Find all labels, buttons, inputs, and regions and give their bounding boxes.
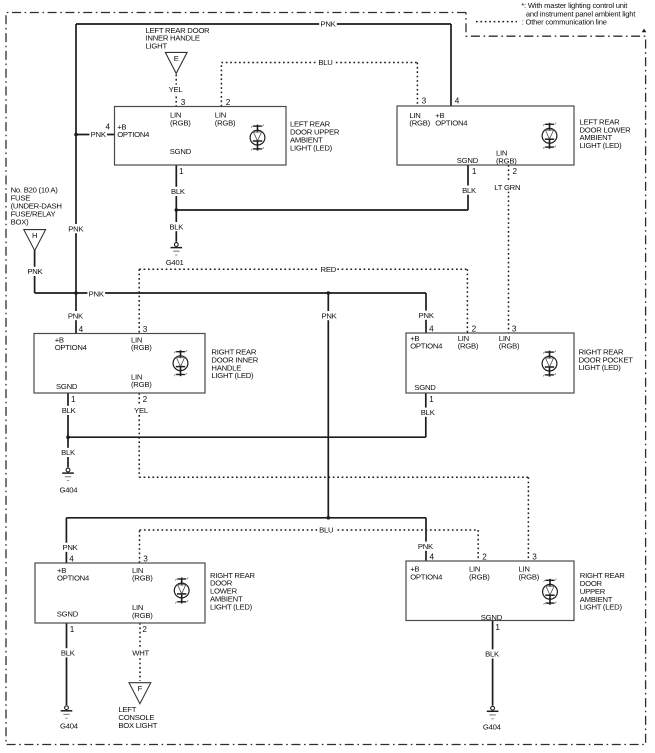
label BLU top xyxy=(317,58,335,67)
svg-text:BLK: BLK xyxy=(462,186,477,195)
svg-text:SGND: SGND xyxy=(170,147,192,156)
LED lamp U5 xyxy=(174,577,189,603)
wire dotted BLU lower box5 pin3 riser xyxy=(139,530,141,563)
wire dotted RED horizontal xyxy=(139,268,467,270)
wire box4 pin4 drop xyxy=(425,293,427,333)
label PNK box5 pin4 xyxy=(61,543,79,552)
svg-text:H: H xyxy=(32,231,37,240)
svg-text:OPTION4: OPTION4 xyxy=(435,119,468,128)
svg-text:(RGB): (RGB) xyxy=(170,118,191,127)
svg-text:(RGB): (RGB) xyxy=(519,572,540,581)
label BLK box1 pin1 xyxy=(169,187,187,196)
wire dotted WHT box5 pin2 to connector F xyxy=(139,623,141,681)
box U5 right rear door lower ambient light xyxy=(35,563,205,623)
svg-text:(RGB): (RGB) xyxy=(132,574,153,583)
wire PNK top bus from left bus to box2 pin4 xyxy=(76,23,451,25)
legend dotted sample line xyxy=(476,21,517,23)
svg-text:G404: G404 xyxy=(483,723,502,732)
svg-text:PNK: PNK xyxy=(68,311,84,320)
wire box6 pin4 drop xyxy=(425,518,427,561)
svg-text:3: 3 xyxy=(143,554,148,563)
connector E left rear door inner handle light xyxy=(165,52,187,73)
wire main PNK bus horizontal xyxy=(76,292,426,294)
svg-text:LIGHT: LIGHT xyxy=(146,41,168,50)
label WHT box5 pin2 xyxy=(132,648,150,657)
wire dotted RED box3 pin3 drop xyxy=(138,269,140,333)
svg-text:BLK: BLK xyxy=(61,448,76,457)
ground G404 under box3 xyxy=(62,468,74,480)
wire dotted BLU lower horizontal xyxy=(140,529,479,531)
wire BLK box3 pin1 down xyxy=(67,393,69,467)
svg-text:BLU: BLU xyxy=(318,58,332,67)
svg-text:4: 4 xyxy=(455,97,460,106)
svg-text:LT GRN: LT GRN xyxy=(494,183,520,192)
svg-text:2: 2 xyxy=(143,395,148,404)
wire dotted RED box4 pin2 drop xyxy=(466,269,468,333)
svg-text:4: 4 xyxy=(106,123,111,132)
LED lamp U6 xyxy=(543,579,558,605)
connector H fuse xyxy=(24,230,46,251)
ground G404 under box5 xyxy=(61,706,73,718)
svg-text:SGND: SGND xyxy=(56,382,78,391)
wire dotted BLU top horizontal xyxy=(221,62,417,64)
wire dotted LT GRN box2 pin2 to box4 pin3 xyxy=(508,165,510,333)
svg-text:1: 1 xyxy=(429,395,434,404)
label PNK fuse branch xyxy=(26,267,44,276)
wire box1 pin4 horizontal xyxy=(76,134,115,136)
svg-text:PNK: PNK xyxy=(89,289,105,298)
wire left PNK bus vertical xyxy=(75,24,77,334)
svg-text:PNK: PNK xyxy=(68,224,84,233)
svg-text:(RGB): (RGB) xyxy=(131,343,152,352)
svg-text:1: 1 xyxy=(179,167,184,176)
label PNK main bus xyxy=(87,289,105,298)
svg-text:SGND: SGND xyxy=(414,383,436,392)
svg-text:BLK: BLK xyxy=(61,649,76,658)
svg-text:3: 3 xyxy=(422,97,427,106)
svg-text:LIGHT (LED): LIGHT (LED) xyxy=(290,144,333,153)
label PNK box3 pin4 xyxy=(67,311,85,320)
label BLK box2 pin1 xyxy=(460,186,478,195)
label YEL connector E xyxy=(167,85,185,94)
wire dotted BLU top box1 pin2 riser xyxy=(220,63,222,107)
svg-text:(RGB): (RGB) xyxy=(469,572,490,581)
wire center PNK vertical xyxy=(327,293,329,518)
ground G404 under box6 xyxy=(487,706,499,718)
svg-text:(RGB): (RGB) xyxy=(132,611,153,620)
wire BLK box5 pin1 to G404 xyxy=(66,623,68,705)
svg-text:OPTION4: OPTION4 xyxy=(117,130,150,139)
label RED xyxy=(320,265,338,274)
svg-text:PNK: PNK xyxy=(320,20,336,29)
legend arrow marker xyxy=(642,29,647,33)
svg-text:4: 4 xyxy=(430,552,435,561)
wire BLK horizontal to box4 pin1 xyxy=(68,436,426,438)
svg-text:F: F xyxy=(138,684,143,693)
svg-text:1: 1 xyxy=(70,625,75,634)
node junction lower bus xyxy=(327,516,331,520)
label PNK center vertical xyxy=(320,311,338,320)
svg-text:2: 2 xyxy=(472,324,477,333)
LED lamp U4 xyxy=(542,350,557,376)
box U4 right rear door pocket light xyxy=(406,333,574,393)
svg-text:1: 1 xyxy=(495,623,500,632)
svg-text:: Other communication line: : Other communication line xyxy=(522,18,607,27)
wire dotted YEL mid horizontal xyxy=(139,476,528,478)
LED lamp U2 xyxy=(542,123,557,149)
svg-text:SGND: SGND xyxy=(481,613,503,622)
svg-text:YEL: YEL xyxy=(169,85,184,94)
label BLK box5 pin1 xyxy=(59,648,77,657)
svg-text:3: 3 xyxy=(181,98,186,107)
label BLK G401 drop xyxy=(168,222,186,231)
box U1 left rear door upper ambient light xyxy=(115,107,287,166)
box U2 left rear door lower ambient light xyxy=(397,106,574,165)
svg-text:OPTION4: OPTION4 xyxy=(57,574,90,583)
label PNK box4 pin4 xyxy=(417,311,435,320)
label BLK box6 pin1 xyxy=(483,649,501,658)
wire BLK box6 pin1 to G404 xyxy=(492,621,494,706)
svg-text:1: 1 xyxy=(71,395,76,404)
label YEL box3 pin2 xyxy=(132,406,150,415)
LED lamp U1 xyxy=(250,124,265,150)
label BLK box4 pin1 xyxy=(419,408,437,417)
label PNK box1 pin4 xyxy=(89,130,107,139)
wire dotted BLU lower box6 pin2 drop xyxy=(477,530,479,561)
wire dotted YEL box3 pin2 down xyxy=(138,393,140,477)
svg-text:4: 4 xyxy=(79,325,84,334)
svg-text:PNK: PNK xyxy=(418,542,434,551)
svg-text:LIGHT (LED): LIGHT (LED) xyxy=(210,602,253,611)
svg-text:2: 2 xyxy=(226,98,231,107)
svg-text:1: 1 xyxy=(472,167,477,176)
label BLU lower xyxy=(317,525,335,534)
label PNK box6 pin4 xyxy=(417,542,435,551)
node junction BLK top xyxy=(175,208,179,212)
svg-text:BOX LIGHT: BOX LIGHT xyxy=(118,721,157,730)
svg-text:BLU: BLU xyxy=(319,526,333,535)
svg-text:SGND: SGND xyxy=(457,156,479,165)
box U3 right rear door inner handle light xyxy=(34,334,205,394)
svg-text:PNK: PNK xyxy=(27,267,43,276)
ground G401 xyxy=(171,243,183,255)
svg-text:BLK: BLK xyxy=(62,406,77,415)
svg-text:OPTION4: OPTION4 xyxy=(410,342,443,351)
svg-text:(RGB): (RGB) xyxy=(499,342,520,351)
box U6 right rear door upper ambient light xyxy=(406,561,574,621)
wire BLK horizontal to box2 pin1 xyxy=(176,209,468,211)
svg-text:PNK: PNK xyxy=(91,130,107,139)
svg-text:BOX): BOX) xyxy=(11,218,29,227)
svg-text:E: E xyxy=(174,54,179,63)
svg-text:(RGB): (RGB) xyxy=(215,118,236,127)
svg-text:OPTION4: OPTION4 xyxy=(55,343,88,352)
label BLK box3 pin1 xyxy=(60,406,78,415)
svg-text:(RGB): (RGB) xyxy=(458,342,479,351)
label LT GRN box2 pin2 xyxy=(492,183,522,192)
label PNK top bus xyxy=(319,19,337,28)
node junction box1 pin4 tap xyxy=(74,133,78,137)
svg-text:G404: G404 xyxy=(60,722,79,731)
svg-text:LIGHT (LED): LIGHT (LED) xyxy=(580,603,623,612)
svg-text:BLK: BLK xyxy=(171,187,186,196)
node junction BLK lower xyxy=(66,435,70,439)
svg-text:3: 3 xyxy=(512,324,517,333)
svg-text:PNK: PNK xyxy=(419,311,435,320)
wire dotted BLU top box2 pin3 drop xyxy=(416,63,418,107)
svg-text:LIGHT (LED): LIGHT (LED) xyxy=(580,141,623,150)
svg-text:2: 2 xyxy=(513,167,518,176)
svg-text:G404: G404 xyxy=(59,486,78,495)
node junction main bus left xyxy=(74,291,78,295)
wire dotted YEL box6 pin3 drop xyxy=(527,477,529,561)
svg-text:PNK: PNK xyxy=(321,311,337,320)
LED lamp U3 xyxy=(173,350,188,376)
svg-text:BLK: BLK xyxy=(485,650,500,659)
wire fuse H branch xyxy=(34,250,36,293)
svg-text:LIGHT (LED): LIGHT (LED) xyxy=(211,371,254,380)
svg-text:G401: G401 xyxy=(166,258,184,267)
svg-text:LIGHT (LED): LIGHT (LED) xyxy=(579,363,622,372)
wire box5 pin4 drop xyxy=(65,518,67,563)
svg-text:RED: RED xyxy=(321,265,337,274)
label BLK G404 drop xyxy=(59,448,77,457)
svg-text:WHT: WHT xyxy=(132,649,149,658)
svg-text:2: 2 xyxy=(142,625,147,634)
wire dotted YEL from connector E to box1 pin3 xyxy=(175,75,177,107)
svg-text:(RGB): (RGB) xyxy=(409,119,430,128)
label PNK left bus upper xyxy=(67,224,85,233)
svg-text:PNK: PNK xyxy=(62,543,78,552)
wire box2 pin4 drop xyxy=(450,24,452,106)
svg-text:BLK: BLK xyxy=(169,222,184,231)
svg-text:4: 4 xyxy=(69,554,74,563)
svg-text:OPTION4: OPTION4 xyxy=(410,572,443,581)
svg-text:3: 3 xyxy=(532,552,537,561)
wire lower PNK bus horizontal xyxy=(66,517,426,519)
wire BLK box1 pin1 to G401 xyxy=(175,165,177,242)
svg-text:3: 3 xyxy=(143,325,148,334)
svg-text:YEL: YEL xyxy=(134,406,149,415)
svg-text:2: 2 xyxy=(482,552,487,561)
svg-text:(RGB): (RGB) xyxy=(496,156,517,165)
svg-text:BLK: BLK xyxy=(421,408,436,417)
svg-text:SGND: SGND xyxy=(57,610,79,619)
node junction main bus center xyxy=(327,291,331,295)
svg-text:4: 4 xyxy=(429,324,434,333)
svg-text:(RGB): (RGB) xyxy=(131,380,152,389)
connector F left console box light xyxy=(129,683,151,704)
